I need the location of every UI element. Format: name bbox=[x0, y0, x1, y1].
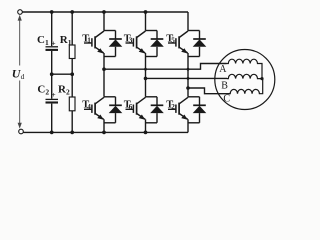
svg-text:B: B bbox=[221, 81, 228, 92]
svg-text:d: d bbox=[21, 72, 25, 81]
svg-text:5: 5 bbox=[171, 37, 175, 45]
svg-text:C: C bbox=[223, 94, 230, 105]
svg-text:3: 3 bbox=[129, 37, 133, 45]
svg-text:6: 6 bbox=[129, 103, 133, 111]
svg-text:1: 1 bbox=[87, 37, 91, 45]
svg-text:+: + bbox=[51, 38, 55, 47]
svg-text:4: 4 bbox=[87, 103, 91, 111]
svg-text:2: 2 bbox=[171, 103, 175, 111]
svg-text:A: A bbox=[219, 64, 227, 75]
svg-text:+: + bbox=[51, 90, 55, 99]
